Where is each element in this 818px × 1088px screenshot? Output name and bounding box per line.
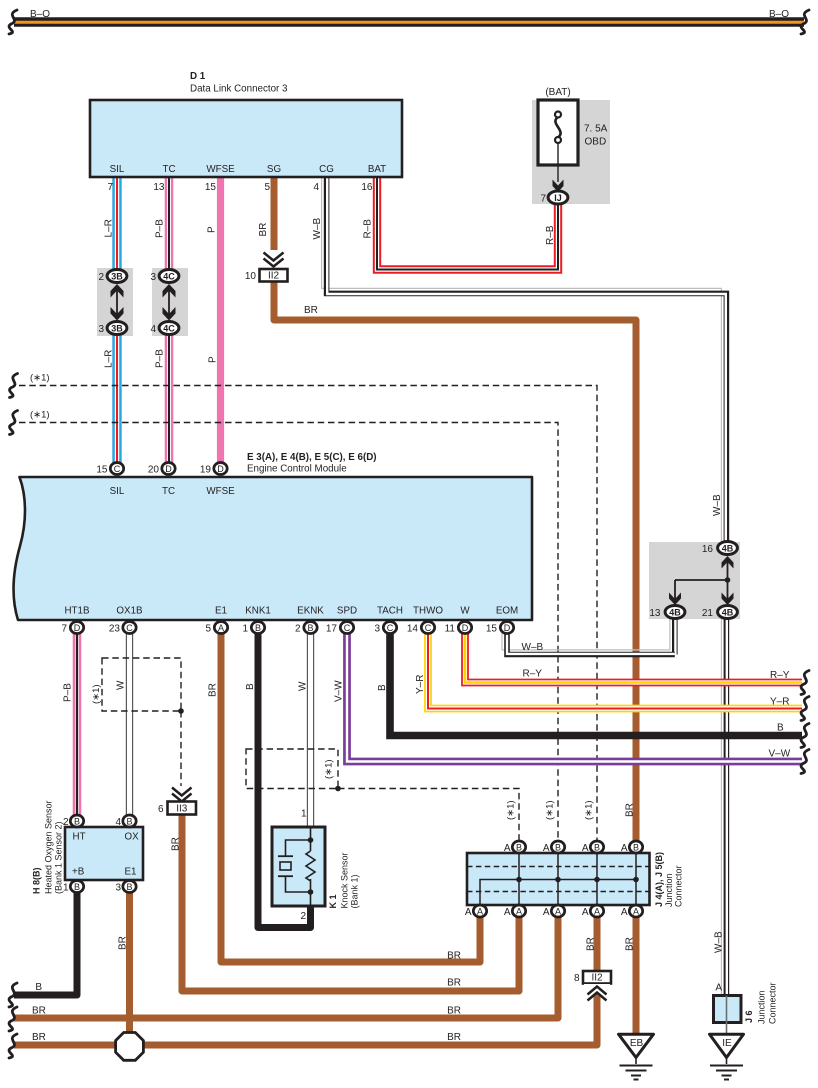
svg-text:OX1B: OX1B: [116, 606, 143, 617]
wire B from ECM KNK1 down, right, up to K1 pin 2: [258, 633, 311, 928]
svg-text:J 4(A), J 5(B): J 4(A), J 5(B): [654, 852, 664, 907]
svg-text:(∗1): (∗1): [506, 800, 517, 820]
dashed box (*1) around KNK1 and EKNK wires: [246, 749, 338, 789]
wire B-O horizontal bus: [14, 17, 804, 27]
svg-text:P: P: [208, 356, 219, 363]
break symbol BR wire left lower: [9, 1034, 17, 1058]
svg-text:OX: OX: [125, 832, 140, 843]
svg-text:3: 3: [150, 272, 156, 283]
svg-text:19: 19: [200, 465, 212, 476]
svg-text:C: C: [425, 623, 432, 633]
svg-text:D: D: [462, 623, 469, 633]
svg-text:8: 8: [574, 973, 580, 984]
svg-text:A: A: [633, 906, 639, 916]
svg-text:(∗1): (∗1): [584, 800, 595, 820]
wire BR from J4 pin A4 down to II2: [594, 917, 601, 971]
svg-text:EOM: EOM: [496, 606, 518, 617]
pin oval H8 pin 1 +B: [70, 881, 83, 893]
svg-text:W: W: [298, 681, 309, 691]
wire L-R from D1 SIL to ECM SIL: [112, 177, 121, 463]
svg-text:Connector: Connector: [768, 982, 778, 1024]
svg-text:1: 1: [242, 624, 248, 635]
svg-text:A: A: [582, 907, 589, 918]
svg-text:W–B: W–B: [712, 494, 723, 516]
arrows and bus inside 4B group: [669, 556, 734, 605]
svg-text:16: 16: [361, 182, 373, 193]
svg-text:Data Link Connector 3: Data Link Connector 3: [190, 84, 288, 95]
pin oval ECM pin 3 TACH: [383, 622, 396, 634]
svg-text:Heated Oxygen Sensor: Heated Oxygen Sensor: [44, 800, 54, 894]
svg-text:B: B: [516, 842, 522, 852]
svg-text:Y–R: Y–R: [770, 697, 789, 708]
svg-text:WFSE: WFSE: [206, 164, 235, 175]
break symbol B-O right: [801, 10, 809, 34]
svg-text:BR: BR: [625, 803, 636, 817]
pin oval J4 bottom pin A1: [473, 905, 486, 917]
wire W from ECM EKNK to K1 pin 1: [307, 633, 314, 828]
connector oval 4B pin 21: [718, 606, 738, 619]
svg-text:4C: 4C: [163, 271, 175, 281]
pin oval ECM pin 2 EKNK: [304, 622, 317, 634]
pin oval H8 pin 4 OX: [123, 815, 136, 827]
svg-text:B: B: [126, 882, 132, 892]
svg-text:D: D: [504, 623, 511, 633]
pin oval ECM pin 7 HT1B: [70, 622, 83, 634]
svg-text:7: 7: [61, 624, 67, 635]
ECM box E3/E4/E5/E6 with wavy left edge: [13, 477, 532, 620]
pin oval ECM pin 17 SPD: [340, 622, 353, 634]
svg-text:D: D: [74, 623, 81, 633]
svg-text:B: B: [555, 842, 561, 852]
pin oval H8 pin 2 HT: [70, 815, 83, 827]
svg-text:B: B: [255, 623, 261, 633]
svg-text:E1: E1: [125, 867, 137, 878]
dashed box (*1) around OX1B wire: [102, 658, 181, 711]
svg-text:A: A: [594, 906, 600, 916]
break symbol (*1) lower left: [10, 411, 18, 435]
fuse element symbol: [555, 112, 561, 183]
connector oval 3B upper (pin 2): [107, 270, 127, 283]
wire BR from II2 down and left off page through octagon: [14, 994, 597, 1045]
svg-text:W–B: W–B: [714, 931, 725, 953]
svg-text:C: C: [126, 623, 133, 633]
svg-text:3B: 3B: [111, 271, 123, 281]
svg-text:IJ: IJ: [554, 193, 562, 203]
svg-text:11: 11: [445, 624, 456, 635]
break symbol B-O left: [9, 10, 17, 34]
break symbol B wire left: [9, 983, 17, 1007]
wire BR from II2 right and down to J4 pin B: [274, 282, 636, 842]
J6 Junction Connector box: [714, 996, 742, 1035]
svg-text:II2: II2: [268, 271, 280, 282]
wire B from H8 +B down and left off page: [14, 892, 77, 995]
svg-text:HT1B: HT1B: [64, 606, 90, 617]
svg-text:V–W: V–W: [334, 680, 345, 702]
svg-text:21: 21: [702, 608, 714, 619]
svg-text:B: B: [377, 684, 388, 691]
svg-text:SG: SG: [267, 164, 281, 175]
svg-text:Knock Sensor: Knock Sensor: [340, 852, 350, 908]
pin oval ECM pin 20 TC: [162, 463, 175, 475]
svg-text:A: A: [516, 906, 522, 916]
svg-text:CG: CG: [319, 164, 334, 175]
svg-text:5: 5: [264, 182, 270, 193]
svg-text:L–R: L–R: [104, 219, 115, 237]
pin oval J4 bottom pin A2: [512, 905, 525, 917]
svg-text:R–B: R–B: [363, 219, 374, 239]
wire P-B from D1 TC to ECM TC: [165, 177, 174, 463]
svg-text:7. 5A: 7. 5A: [584, 124, 608, 135]
svg-text:W–B: W–B: [522, 642, 544, 653]
connector oval 3B lower (pin 3): [107, 322, 127, 335]
wire Y-R from ECM THWO right off page: [428, 633, 802, 709]
pin oval ECM pin 23 OX1B: [123, 622, 136, 634]
pin oval J4 bottom pin A4: [590, 905, 603, 917]
K1 internal resistor: [306, 851, 315, 881]
svg-text:OBD: OBD: [585, 137, 607, 148]
svg-text:14: 14: [407, 624, 419, 635]
svg-text:(∗1): (∗1): [30, 373, 50, 384]
svg-text:(∗1): (∗1): [30, 410, 50, 421]
svg-text:W–B: W–B: [312, 218, 323, 240]
wire P from D1 WFSE to ECM WFSE: [217, 177, 224, 463]
dashed line (*1) upper to J4 pin B3: [19, 386, 597, 842]
svg-text:B: B: [633, 842, 639, 852]
svg-text:Y–R: Y–R: [415, 675, 426, 694]
svg-text:4: 4: [115, 817, 121, 828]
wire W-B from 4B pin 21 down to J6: [721, 618, 726, 995]
J4 internal bus with junction dots: [480, 877, 639, 905]
svg-text:BR: BR: [447, 1032, 461, 1043]
svg-text:II3: II3: [176, 804, 188, 815]
svg-text:P–B: P–B: [63, 683, 74, 702]
svg-text:BR: BR: [447, 978, 461, 989]
svg-text:BR: BR: [118, 936, 129, 950]
svg-text:THWO: THWO: [413, 606, 443, 617]
svg-text:BR: BR: [208, 683, 219, 697]
svg-text:B: B: [594, 842, 600, 852]
svg-text:BR: BR: [171, 837, 182, 851]
svg-text:(Bank 1 Sensor 2): (Bank 1 Sensor 2): [54, 821, 64, 894]
svg-text:BR: BR: [304, 305, 318, 316]
svg-text:B: B: [126, 816, 132, 826]
wire B from ECM TACH right off page: [390, 633, 802, 736]
wire W from ECM OX1B to H8 OX: [126, 633, 133, 816]
svg-text:BR: BR: [447, 951, 461, 962]
break symbol V-W right: [801, 750, 809, 774]
svg-text:K 1: K 1: [328, 894, 338, 908]
svg-text:A: A: [621, 843, 628, 854]
svg-text:E1: E1: [215, 606, 227, 617]
connector oval 4C upper (pin 3): [159, 270, 179, 283]
pin oval ECM pin 14 THWO: [421, 622, 434, 634]
svg-text:EKNK: EKNK: [297, 606, 324, 617]
svg-text:2: 2: [98, 272, 104, 283]
II3 connector (pin 6): [167, 786, 196, 815]
svg-text:B: B: [74, 882, 80, 892]
svg-text:E 3(A), E 4(B), E 5(C), E 6(D): E 3(A), E 4(B), E 5(C), E 6(D): [247, 452, 377, 463]
svg-text:II2: II2: [591, 973, 603, 984]
D1 Data Link Connector 3 box: [90, 100, 402, 177]
svg-text:TC: TC: [162, 486, 175, 497]
fuse 7.5A OBD body: [538, 100, 578, 165]
svg-text:BR: BR: [32, 1006, 46, 1017]
connector oval 4C lower (pin 4): [159, 322, 179, 335]
svg-text:+B: +B: [72, 867, 85, 878]
svg-text:SIL: SIL: [110, 486, 125, 497]
svg-text:P–B: P–B: [155, 219, 166, 238]
pin oval ECM pin 11 W: [458, 622, 471, 634]
svg-text:R–Y: R–Y: [523, 669, 543, 680]
svg-text:B–O: B–O: [769, 9, 789, 20]
svg-text:C: C: [344, 623, 351, 633]
svg-text:A: A: [582, 843, 589, 854]
svg-text:BR: BR: [32, 1032, 46, 1043]
dashed link from OX1B box to II3: [178, 708, 184, 788]
svg-text:7: 7: [107, 182, 113, 193]
K1 internal lead pin1 to pin2: [310, 827, 312, 906]
svg-text:W: W: [116, 680, 127, 690]
svg-text:23: 23: [109, 624, 121, 635]
svg-text:2: 2: [300, 911, 306, 922]
wire W-B from D1 CG right and down to 4B pin 16: [322, 177, 727, 542]
pin oval J4 bottom pin A3: [551, 905, 564, 917]
svg-text:P–B: P–B: [155, 349, 166, 368]
svg-text:4B: 4B: [722, 543, 734, 553]
svg-text:15: 15: [205, 182, 217, 193]
svg-text:BR: BR: [447, 1006, 461, 1017]
svg-text:SIL: SIL: [110, 164, 125, 175]
svg-text:B: B: [245, 683, 256, 690]
svg-text:D: D: [165, 464, 172, 474]
connector pair 4C background: [152, 268, 188, 336]
wire W-B from ECM EOM right and up to 4B pin 13: [502, 633, 675, 655]
wire BR from J4 pin A3 down and left off page: [14, 917, 558, 1018]
svg-text:Connector: Connector: [674, 865, 684, 907]
pin oval ECM pin 19 WFSE: [214, 463, 227, 475]
svg-text:B: B: [35, 982, 42, 993]
svg-text:W: W: [460, 606, 470, 617]
wire BR from J4 pin A5 down to ground EB: [633, 917, 640, 1036]
svg-text:HT: HT: [73, 832, 86, 843]
svg-text:(BAT): (BAT): [545, 87, 570, 98]
svg-text:A: A: [465, 907, 472, 918]
break symbol B right: [801, 724, 809, 748]
svg-text:16: 16: [702, 544, 714, 555]
J4 internal through wires: [519, 853, 636, 905]
svg-text:15: 15: [486, 624, 498, 635]
wire R-B from D1 BAT right and up to fuse IJ: [377, 177, 558, 270]
break symbol BR wire left upper: [9, 1007, 17, 1031]
svg-text:1: 1: [301, 809, 307, 820]
svg-text:H 8(B): H 8(B): [32, 867, 42, 894]
svg-text:B: B: [777, 723, 784, 734]
svg-text:3: 3: [374, 624, 380, 635]
svg-text:WFSE: WFSE: [206, 486, 235, 497]
J4/J5 Junction Connector box: [467, 853, 650, 905]
svg-text:2: 2: [295, 624, 301, 635]
svg-text:(∗1): (∗1): [324, 759, 335, 779]
fuse block background (BAT): [532, 100, 610, 204]
svg-text:V–W: V–W: [769, 749, 791, 760]
wire P-B from ECM HT1B to H8 HT: [73, 633, 82, 816]
pin oval J4 top pin B4: [629, 841, 642, 853]
splice octagon on BR wire: [116, 1033, 144, 1061]
svg-text:A: A: [218, 623, 224, 633]
svg-text:B: B: [74, 816, 80, 826]
svg-text:Junction: Junction: [757, 990, 767, 1024]
svg-text:P: P: [207, 226, 218, 233]
svg-text:C: C: [114, 464, 121, 474]
wire BR from D1 SG down to II2: [271, 177, 278, 251]
break symbol (*1) upper left: [10, 374, 18, 398]
svg-text:TACH: TACH: [377, 606, 403, 617]
wire BR from II3 down, right, up to J4 pin A2: [182, 815, 519, 991]
connector oval 4B pin 16: [718, 542, 738, 555]
svg-text:4B: 4B: [722, 607, 734, 617]
svg-text:13: 13: [649, 608, 661, 619]
svg-text:3: 3: [115, 883, 121, 894]
svg-text:R–Y: R–Y: [770, 670, 790, 681]
pin oval H8 pin 3 E1: [123, 881, 136, 893]
connector pair 3B background: [97, 268, 133, 336]
svg-text:BR: BR: [586, 937, 597, 951]
svg-text:4: 4: [150, 324, 156, 335]
pin oval ECM pin 15 SIL: [110, 463, 123, 475]
svg-text:A: A: [504, 907, 511, 918]
svg-text:17: 17: [326, 624, 338, 635]
svg-text:D: D: [217, 464, 224, 474]
II2 connector at BR (pin 8): [583, 971, 611, 1001]
svg-text:TC: TC: [162, 164, 175, 175]
svg-text:4: 4: [313, 182, 319, 193]
svg-text:D 1: D 1: [190, 71, 206, 82]
svg-text:13: 13: [153, 182, 165, 193]
H8 Heated Oxygen Sensor box: [65, 827, 143, 880]
svg-text:A: A: [715, 983, 722, 994]
pin oval J4 top pin B1: [512, 841, 525, 853]
wire BR from ECM E1 down, right, up to J4 pin A1: [221, 633, 480, 962]
break symbol Y-R right: [801, 697, 809, 721]
svg-text:J 6: J 6: [744, 1010, 754, 1023]
svg-text:6: 6: [158, 804, 164, 815]
svg-text:15: 15: [96, 465, 108, 476]
pin oval ECM pin 15 EOM: [500, 622, 513, 634]
K1 internal piezo capacitor branch: [278, 837, 313, 895]
svg-text:A: A: [621, 907, 628, 918]
svg-text:20: 20: [148, 465, 160, 476]
wire V-W from ECM SPD right off page: [347, 633, 802, 762]
svg-text:(∗1): (∗1): [91, 684, 102, 704]
svg-text:A: A: [543, 843, 550, 854]
ground EB: [619, 1034, 654, 1079]
K1 Knock Sensor box: [272, 827, 325, 906]
pin oval ECM pin 5 E1: [214, 622, 227, 634]
svg-text:10: 10: [245, 271, 257, 282]
pin oval J4 bottom pin A5: [629, 905, 642, 917]
dashed link from knock box to J4 pin B1: [335, 786, 519, 841]
svg-text:A: A: [477, 906, 483, 916]
svg-text:A: A: [504, 843, 511, 854]
svg-text:1: 1: [63, 883, 69, 894]
connector oval 4B pin 13: [665, 606, 685, 619]
svg-text:BAT: BAT: [368, 164, 386, 175]
svg-text:Junction: Junction: [664, 873, 674, 907]
wire W-B stub from 4B pin 13 down to EOM run: [670, 618, 676, 655]
ground IE: [710, 1034, 744, 1079]
svg-text:(∗1): (∗1): [545, 800, 556, 820]
svg-text:7: 7: [540, 194, 546, 205]
svg-text:L–R: L–R: [104, 350, 115, 368]
svg-text:2: 2: [63, 817, 69, 828]
svg-text:(Bank 1): (Bank 1): [350, 874, 360, 908]
connector oval IJ (pin 7): [548, 191, 568, 204]
svg-text:BR: BR: [258, 223, 269, 237]
wire R-Y from ECM W pin right off page: [465, 633, 802, 683]
double arrow between 4C connectors: [163, 284, 176, 321]
svg-text:3: 3: [98, 324, 104, 335]
svg-text:R–B: R–B: [545, 225, 556, 245]
wire BR from H8 E1 down to splice octagon: [126, 892, 133, 1045]
svg-text:SPD: SPD: [337, 606, 357, 617]
II2 connector at SG (pin 10): [260, 250, 288, 282]
svg-text:A: A: [555, 906, 561, 916]
svg-text:A: A: [543, 907, 550, 918]
svg-text:Engine Control Module: Engine Control Module: [247, 464, 347, 475]
svg-text:5: 5: [205, 624, 211, 635]
pin oval J4 top pin B2: [551, 841, 564, 853]
double arrow between 3B connectors: [111, 284, 124, 321]
svg-text:3B: 3B: [111, 323, 123, 333]
svg-text:C: C: [387, 623, 394, 633]
break symbol R-Y right: [801, 671, 809, 695]
svg-text:KNK1: KNK1: [245, 606, 271, 617]
svg-text:IE: IE: [722, 1038, 732, 1049]
svg-text:4B: 4B: [669, 607, 681, 617]
svg-text:B–O: B–O: [30, 9, 50, 20]
pin oval J4 top pin B3: [590, 841, 603, 853]
svg-text:EB: EB: [630, 1038, 644, 1049]
svg-text:4C: 4C: [163, 323, 175, 333]
svg-text:B: B: [307, 623, 313, 633]
connector group 4B background: [649, 542, 740, 619]
svg-text:BR: BR: [625, 937, 636, 951]
J4 internal dashed rails: [467, 867, 650, 892]
dashed line (*1) lower to J4 pin B2: [19, 423, 558, 842]
fuse output arrow into IJ: [553, 180, 564, 193]
pin oval ECM pin 1 KNK1: [251, 622, 264, 634]
